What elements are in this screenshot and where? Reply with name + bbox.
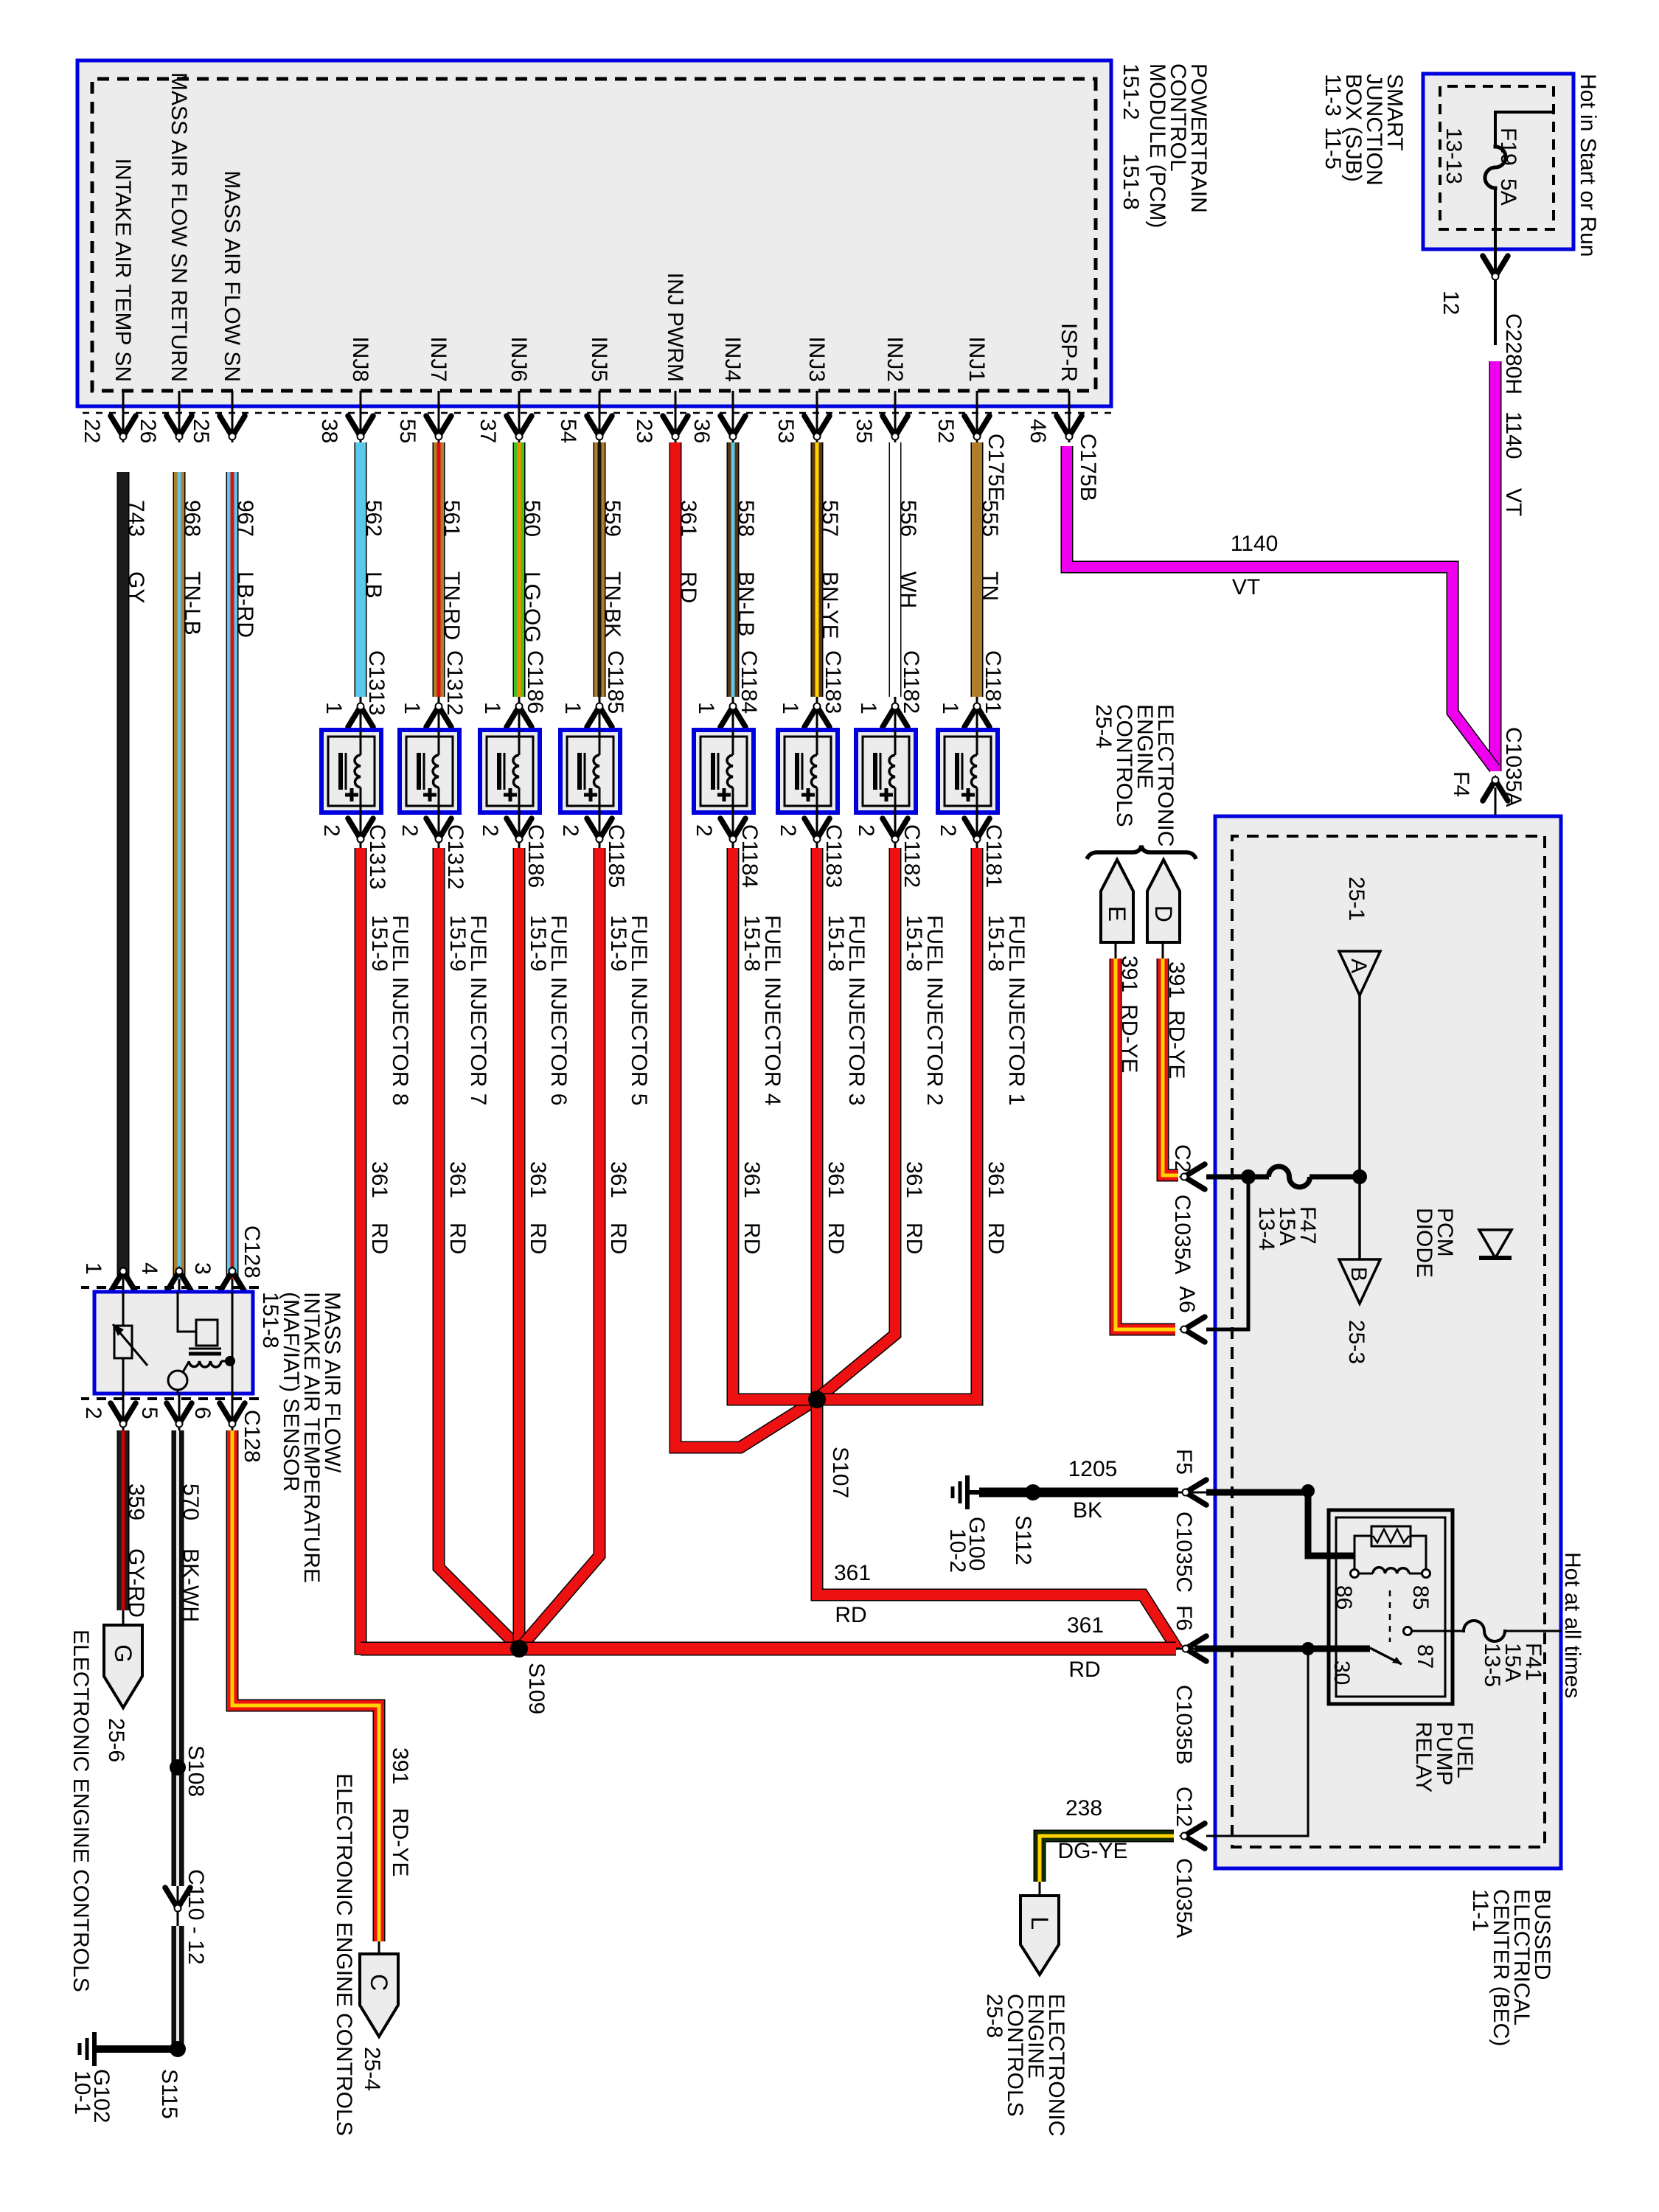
svg-text:E: E bbox=[1104, 906, 1130, 922]
svg-text:RD: RD bbox=[984, 1222, 1008, 1254]
svg-text:GY: GY bbox=[124, 571, 148, 603]
svg-text:C: C bbox=[366, 1974, 392, 1991]
wire 570 BK-WH (C110 to S115) bbox=[172, 1926, 184, 2049]
connector C1183 pin 1 chevron bbox=[778, 697, 829, 730]
fuel injector (FUEL INJECTOR 6) bbox=[480, 730, 540, 813]
svg-text:C2280H: C2280H bbox=[1501, 313, 1526, 394]
svg-text:361: 361 bbox=[902, 1161, 926, 1198]
wire 1205 BK (G100 to F5) bbox=[979, 1457, 1178, 1523]
svg-text:570: 570 bbox=[178, 1484, 203, 1520]
PCM: Powertrain Control Module box bbox=[77, 60, 1111, 413]
connector C1183 pin 2 chevron bbox=[776, 813, 846, 888]
svg-text:151-9: 151-9 bbox=[606, 915, 630, 972]
svg-text:35: 35 bbox=[852, 419, 876, 443]
svg-text:2: 2 bbox=[478, 824, 502, 837]
fuel injector (FUEL INJECTOR 7) bbox=[400, 730, 459, 813]
svg-text:INJ4: INJ4 bbox=[720, 336, 745, 382]
svg-text:RD: RD bbox=[526, 1222, 550, 1254]
svg-text:C128: C128 bbox=[240, 1410, 264, 1463]
svg-text:85: 85 bbox=[1408, 1585, 1433, 1610]
fuel injector (FUEL INJECTOR 5) bbox=[560, 730, 620, 813]
svg-text:DG-YE: DG-YE bbox=[1057, 1839, 1127, 1863]
svg-text:2: 2 bbox=[854, 824, 878, 837]
PCM pin 22 (INTAKE AIR TEMP SN) bbox=[80, 159, 136, 444]
labels C1035A / F4 bbox=[1449, 727, 1526, 807]
svg-text:C1035B: C1035B bbox=[1172, 1685, 1196, 1764]
fuse F47 15A 13-4 bbox=[1206, 1166, 1367, 1251]
SJB: Smart Junction Box bbox=[1423, 74, 1573, 249]
wire 1140 VT branch (ISP-R to junction) bbox=[1067, 446, 1495, 768]
connector C1313 pin 2 chevron bbox=[319, 813, 389, 889]
svg-text:INJ8: INJ8 bbox=[348, 336, 372, 382]
svg-text:RD-YE: RD-YE bbox=[1117, 1004, 1141, 1073]
connector L (pentagon) bbox=[1020, 1896, 1059, 1975]
svg-text:RD: RD bbox=[835, 1603, 866, 1627]
svg-text:RELAY: RELAY bbox=[1411, 1722, 1436, 1792]
MAF element (inside sensor) bbox=[168, 1292, 235, 1394]
connector C1312 pin 1 chevron bbox=[400, 697, 451, 730]
svg-text:INJ7: INJ7 bbox=[426, 336, 451, 382]
PCM pin 25 (MASS AIR FLOW SN) bbox=[189, 170, 245, 443]
svg-text:ELECTRONIC ENGINE CONTROLS: ELECTRONIC ENGINE CONTROLS bbox=[69, 1630, 93, 1992]
svg-text:RD: RD bbox=[902, 1222, 926, 1254]
label Hot at all times bbox=[1560, 1552, 1585, 1698]
svg-text:11-1: 11-1 bbox=[1468, 1889, 1492, 1932]
svg-text:25: 25 bbox=[189, 419, 213, 443]
svg-text:2: 2 bbox=[558, 824, 582, 837]
label BUSSED ELECTRICAL CENTER (BEC) 11-1 bbox=[1468, 1889, 1554, 2046]
wire 560 LG-OG (PCM pin 37 to C1186) bbox=[519, 442, 547, 714]
svg-text:25-8: 25-8 bbox=[982, 1994, 1006, 2038]
svg-text:968: 968 bbox=[180, 500, 204, 537]
wire 361 RD (INJ PWRM, PCM pin 23 to S107) bbox=[675, 442, 812, 1447]
connector G (pentagon) bbox=[104, 1625, 142, 1762]
svg-text:1: 1 bbox=[321, 702, 346, 714]
wire 391 RD-YE (sensor pin6 to connector C) bbox=[232, 1430, 412, 1954]
relay switch 30/87 bbox=[1329, 1590, 1437, 1685]
svg-text:WH: WH bbox=[896, 571, 920, 608]
svg-text:BN-YE: BN-YE bbox=[818, 571, 842, 639]
svg-text:INJ2: INJ2 bbox=[883, 336, 907, 382]
ground G100 bbox=[945, 1475, 989, 1573]
wire 570 BK-WH (sensor pin5 to G102) bbox=[178, 1430, 203, 1886]
svg-text:22: 22 bbox=[80, 419, 104, 443]
svg-text:2: 2 bbox=[397, 824, 422, 837]
svg-text:F5: F5 bbox=[1172, 1449, 1196, 1475]
connector C2 chevron bbox=[1170, 1144, 1205, 1274]
fuel injector (FUEL INJECTOR 8) bbox=[321, 730, 381, 813]
svg-text:RD: RD bbox=[1068, 1658, 1100, 1682]
svg-text:5A: 5A bbox=[1496, 178, 1520, 206]
wire 968 TN-LB (PCM pin 26 to MAF/IAT sensor) bbox=[179, 472, 204, 1292]
svg-text:C1035A: C1035A bbox=[1170, 1194, 1194, 1274]
label SMART JUNCTION BOX (SJB) 11-3 11-5 bbox=[1321, 74, 1407, 186]
wire 555 TN (PCM pin 52 to C1181) bbox=[977, 442, 1005, 714]
svg-text:151-8: 151-8 bbox=[902, 915, 926, 972]
svg-text:11-3: 11-3 bbox=[1321, 74, 1345, 116]
svg-text:C1186: C1186 bbox=[524, 824, 548, 888]
node C2 branch dot bbox=[1241, 1169, 1256, 1184]
PCM pin 46 (ISP-R) bbox=[1026, 323, 1082, 443]
svg-text:46: 46 bbox=[1026, 419, 1050, 443]
connector C (pentagon) bbox=[360, 1954, 398, 2091]
svg-text:INTAKE AIR TEMP SN: INTAKE AIR TEMP SN bbox=[111, 159, 135, 382]
svg-text:25-1: 25-1 bbox=[1344, 877, 1368, 921]
svg-text:361: 361 bbox=[676, 500, 700, 537]
svg-text:LG-OG: LG-OG bbox=[520, 571, 544, 643]
svg-text:37: 37 bbox=[476, 419, 500, 443]
ground G102 bbox=[70, 2032, 178, 2123]
PCM pin 36 (INJ4) bbox=[689, 336, 745, 443]
svg-text:S109: S109 bbox=[524, 1663, 549, 1714]
splice S107 bbox=[808, 1391, 852, 1498]
connector A6 chevron bbox=[1175, 1286, 1205, 1342]
svg-text:1: 1 bbox=[400, 702, 424, 714]
svg-text:1: 1 bbox=[778, 702, 802, 714]
svg-text:MODULE (PCM): MODULE (PCM) bbox=[1145, 63, 1169, 228]
svg-text:391: 391 bbox=[1164, 961, 1189, 998]
svg-text:1: 1 bbox=[938, 702, 962, 714]
svg-text:13-13: 13-13 bbox=[1441, 128, 1466, 184]
svg-text:C1035C: C1035C bbox=[1172, 1512, 1196, 1593]
svg-text:RD: RD bbox=[824, 1222, 848, 1254]
labels 1140 VT (branch, rotated) bbox=[1231, 532, 1279, 599]
connector C110-12 chevron bbox=[165, 1869, 208, 1965]
labels C175E / C175B bbox=[984, 434, 1100, 501]
label FUEL INJECTOR 3 151-8 bbox=[824, 915, 869, 1105]
wire 361 RD (S107 to F6 merge) bbox=[817, 1399, 1178, 1649]
wire 743 GY (PCM pin 22 to MAF/IAT sensor) bbox=[123, 472, 148, 1292]
wire F6 to relay 30 bbox=[1194, 1642, 1370, 1655]
connector F4 C1035A chevron bbox=[1483, 777, 1508, 801]
svg-text:INJ PWRM: INJ PWRM bbox=[663, 273, 687, 382]
svg-text:G: G bbox=[110, 1644, 136, 1663]
svg-text:Hot in Start or Run: Hot in Start or Run bbox=[1576, 74, 1600, 257]
wire C12 branch bbox=[1206, 1649, 1308, 1836]
label PCM DIODE bbox=[1412, 1208, 1457, 1278]
label FUEL INJECTOR 2 151-8 bbox=[902, 915, 947, 1105]
labels 1140 VT bbox=[1501, 411, 1526, 516]
svg-text:151-9: 151-9 bbox=[367, 915, 392, 972]
svg-text:25-4: 25-4 bbox=[360, 2047, 384, 2091]
svg-text:B: B bbox=[1346, 1267, 1371, 1281]
connector C1181 pin 2 chevron bbox=[936, 813, 1006, 888]
svg-text:RD: RD bbox=[367, 1222, 392, 1254]
svg-text:D: D bbox=[1150, 905, 1177, 922]
svg-text:RD-YE: RD-YE bbox=[388, 1808, 412, 1877]
svg-text:C1183: C1183 bbox=[821, 650, 845, 714]
svg-text:556: 556 bbox=[896, 500, 920, 537]
wire F5 to relay coil 86 bbox=[1206, 1484, 1354, 1556]
svg-text:VT: VT bbox=[1232, 575, 1260, 599]
fuel injector (FUEL INJECTOR 4) bbox=[694, 730, 754, 813]
wire branch to A6 bbox=[1206, 1177, 1248, 1329]
fuel injector (FUEL INJECTOR 1) bbox=[938, 730, 998, 813]
wire 361 RD (injector 6 to S109) bbox=[519, 848, 550, 1649]
svg-text:1: 1 bbox=[560, 702, 585, 714]
PCM pin 26 (MASS AIR FLOW SN RETURN) bbox=[136, 72, 192, 443]
svg-text:23: 23 bbox=[632, 419, 656, 443]
svg-text:ISP-R: ISP-R bbox=[1057, 323, 1081, 382]
PCM pin 37 (INJ6) bbox=[476, 336, 532, 443]
wire 967 LB-RD (PCM pin 25 to MAF/IAT sensor) bbox=[232, 472, 257, 1292]
wire 359 GY-RD (sensor pin2 to connector G) bbox=[123, 1430, 148, 1625]
svg-text:54: 54 bbox=[556, 419, 580, 443]
wire relay 87 to F41 bbox=[1411, 1630, 1465, 1632]
svg-text:Hot at all times: Hot at all times bbox=[1560, 1552, 1585, 1698]
connector C1182 pin 2 chevron bbox=[854, 813, 924, 888]
svg-text:86: 86 bbox=[1332, 1585, 1356, 1610]
PCM diode symbol bbox=[1479, 1230, 1512, 1258]
svg-text:361: 361 bbox=[1067, 1613, 1104, 1638]
PCM pin 53 (INJ3) bbox=[773, 336, 829, 443]
svg-text:11-5: 11-5 bbox=[1321, 127, 1345, 170]
svg-text:555: 555 bbox=[978, 500, 1002, 537]
svg-text:52: 52 bbox=[933, 419, 958, 443]
svg-text:25-4: 25-4 bbox=[1091, 704, 1116, 748]
svg-text:151-8: 151-8 bbox=[258, 1292, 282, 1349]
svg-text:361: 361 bbox=[984, 1161, 1008, 1198]
fuel injector (FUEL INJECTOR 3) bbox=[778, 730, 838, 813]
svg-text:2: 2 bbox=[319, 824, 344, 837]
svg-text:1140: 1140 bbox=[1231, 532, 1279, 556]
svg-text:TN-LB: TN-LB bbox=[180, 571, 204, 636]
svg-text:10-1: 10-1 bbox=[70, 2070, 94, 2115]
PCM pin 52 (INJ1) bbox=[933, 336, 990, 443]
svg-text:151-8: 151-8 bbox=[984, 915, 1008, 972]
wire 361 RD (injector 2 to S107) bbox=[816, 848, 926, 1399]
svg-text:INJ3: INJ3 bbox=[804, 336, 829, 382]
connector C128 chevrons (output side) bbox=[81, 1394, 264, 1463]
svg-text:2: 2 bbox=[81, 1407, 105, 1419]
wire 361 RD (injector 4 to S107) bbox=[733, 848, 817, 1399]
svg-text:2: 2 bbox=[936, 824, 960, 837]
svg-text:743: 743 bbox=[124, 500, 148, 537]
svg-text:53: 53 bbox=[773, 419, 798, 443]
connector C1182 pin 1 chevron bbox=[856, 697, 908, 730]
wire 559 TN-BK (PCM pin 54 to C1185) bbox=[599, 442, 627, 714]
svg-text:391: 391 bbox=[388, 1747, 412, 1784]
svg-text:C1185: C1185 bbox=[603, 650, 627, 714]
svg-text:25-6: 25-6 bbox=[104, 1718, 128, 1762]
label FUEL INJECTOR 7 151-9 bbox=[445, 915, 490, 1105]
label FUEL INJECTOR 4 151-8 bbox=[740, 915, 785, 1105]
connector C1184 pin 2 chevron bbox=[692, 813, 762, 888]
brace over connectors D and E bbox=[1087, 846, 1196, 859]
label ELECTRONIC ENGINE CONTROLS 25-4 (D/E) bbox=[1091, 704, 1178, 846]
connector C1313 pin 1 chevron bbox=[321, 697, 373, 730]
wire 361 RD bus (S109 to F6) bbox=[361, 1613, 1176, 1682]
svg-text:1140: 1140 bbox=[1501, 411, 1526, 459]
label FUEL INJECTOR 5 151-9 bbox=[606, 915, 651, 1105]
connector C1186 pin 1 chevron bbox=[480, 697, 532, 730]
wire 391 RD-YE (E to A6) bbox=[1116, 942, 1175, 1329]
wire 1140 VT (SJB to BEC F4) bbox=[1489, 361, 1502, 771]
IAT thermistor (inside sensor) bbox=[113, 1292, 147, 1394]
label POWERTRAIN CONTROL MODULE (PCM) 151-2 151-8 bbox=[1119, 63, 1211, 228]
labels C2280H / 12 bbox=[1439, 291, 1526, 394]
splice S115 bbox=[157, 2041, 186, 2119]
svg-text:A: A bbox=[1346, 959, 1371, 973]
svg-text:36: 36 bbox=[689, 419, 714, 443]
svg-text:1: 1 bbox=[694, 702, 718, 714]
svg-text:TN-RD: TN-RD bbox=[439, 571, 464, 640]
svg-text:DIODE: DIODE bbox=[1412, 1208, 1436, 1278]
svg-text:RD: RD bbox=[676, 571, 700, 603]
svg-text:F6: F6 bbox=[1172, 1605, 1196, 1631]
label ELECTRONIC ENGINE CONTROLS (C) bbox=[332, 1773, 356, 2136]
label F19 5A / 13-13 bbox=[1441, 128, 1520, 206]
wire A to B with F47 tap bbox=[1358, 995, 1361, 1259]
svg-text:C1181: C1181 bbox=[981, 824, 1006, 888]
svg-text:391: 391 bbox=[1117, 956, 1141, 992]
svg-text:C1182: C1182 bbox=[900, 824, 924, 888]
svg-text:87: 87 bbox=[1413, 1644, 1437, 1669]
wire 558 BN-LB (PCM pin 36 to C1184) bbox=[733, 442, 761, 714]
svg-text:55: 55 bbox=[395, 419, 420, 443]
label ELECTRONIC ENGINE CONTROLS 25-8 (L) bbox=[982, 1994, 1068, 2136]
svg-text:C1184: C1184 bbox=[737, 650, 761, 714]
connector D (pentagon) bbox=[1147, 860, 1180, 942]
svg-text:C110 - 12: C110 - 12 bbox=[184, 1869, 208, 1965]
svg-text:RD: RD bbox=[740, 1222, 764, 1254]
svg-text:BK-WH: BK-WH bbox=[178, 1548, 203, 1622]
svg-text:13-4: 13-4 bbox=[1254, 1206, 1279, 1251]
svg-text:C2: C2 bbox=[1170, 1144, 1194, 1172]
splice S112 bbox=[1011, 1484, 1041, 1565]
svg-text:967: 967 bbox=[233, 500, 257, 537]
connector C2280H chevron bbox=[1483, 256, 1508, 280]
svg-text:2: 2 bbox=[692, 824, 716, 837]
fuse F41 15A 13-5 bbox=[1464, 1621, 1561, 1687]
relay coil bbox=[1332, 1568, 1433, 1610]
svg-text:151-9: 151-9 bbox=[445, 915, 470, 972]
connector C1312 pin 2 chevron bbox=[397, 813, 467, 889]
svg-text:C1313: C1313 bbox=[365, 824, 389, 889]
splice S109 bbox=[510, 1640, 549, 1714]
connector C1186 pin 2 chevron bbox=[478, 813, 548, 888]
svg-text:361: 361 bbox=[824, 1161, 848, 1198]
svg-text:INJ1: INJ1 bbox=[964, 336, 989, 382]
svg-text:C175B: C175B bbox=[1076, 434, 1100, 501]
MAF/IAT sensor box bbox=[94, 1292, 253, 1394]
label FUEL INJECTOR 6 151-9 bbox=[526, 915, 571, 1105]
svg-text:BK: BK bbox=[1073, 1498, 1102, 1523]
svg-text:361: 361 bbox=[834, 1561, 871, 1585]
svg-text:557: 557 bbox=[818, 500, 842, 537]
connector C1181 pin 1 chevron bbox=[938, 697, 990, 730]
svg-text:561: 561 bbox=[439, 500, 464, 537]
svg-text:1: 1 bbox=[480, 702, 504, 714]
svg-text:151-8: 151-8 bbox=[824, 915, 848, 972]
svg-text:13-5: 13-5 bbox=[1480, 1643, 1504, 1687]
svg-text:5: 5 bbox=[137, 1407, 161, 1419]
svg-text:238: 238 bbox=[1065, 1796, 1102, 1820]
svg-text:MASS AIR FLOW SN: MASS AIR FLOW SN bbox=[220, 170, 244, 382]
svg-text:C1186: C1186 bbox=[523, 650, 547, 714]
svg-text:ELECTRONIC ENGINE CONTROLS: ELECTRONIC ENGINE CONTROLS bbox=[332, 1773, 356, 2136]
svg-text:BN-LB: BN-LB bbox=[734, 571, 758, 636]
label Hot in Start or Run bbox=[1576, 74, 1600, 257]
svg-text:F19: F19 bbox=[1496, 128, 1520, 166]
svg-text:INJ5: INJ5 bbox=[587, 336, 611, 382]
svg-text:562: 562 bbox=[361, 500, 386, 537]
svg-text:25-3: 25-3 bbox=[1344, 1320, 1368, 1364]
wire 557 BN-YE (PCM pin 53 to C1183) bbox=[817, 442, 845, 714]
svg-text:TN: TN bbox=[978, 571, 1002, 601]
svg-text:A6: A6 bbox=[1175, 1286, 1199, 1313]
svg-text:30: 30 bbox=[1329, 1660, 1354, 1685]
svg-text:359: 359 bbox=[124, 1484, 148, 1520]
label FUEL INJECTOR 1 151-8 bbox=[984, 915, 1029, 1105]
splice S108 bbox=[170, 1745, 208, 1797]
svg-text:S112: S112 bbox=[1011, 1515, 1035, 1565]
svg-text:C1185: C1185 bbox=[604, 824, 628, 888]
connector F5 C1035C chevron bbox=[1172, 1449, 1215, 1593]
svg-text:LB: LB bbox=[361, 571, 386, 599]
svg-text:S107: S107 bbox=[828, 1447, 852, 1498]
connector E (pentagon) bbox=[1101, 860, 1133, 942]
fuse F19 5A feed wire bbox=[1485, 112, 1554, 345]
svg-text:S115: S115 bbox=[157, 2069, 181, 2119]
svg-text:C1035A: C1035A bbox=[1172, 1858, 1196, 1938]
svg-text:C1035A: C1035A bbox=[1501, 727, 1526, 807]
BEC: Bussed Electrical Center box bbox=[1215, 816, 1561, 1868]
svg-text:151-8: 151-8 bbox=[740, 915, 764, 972]
connector C1184 pin 1 chevron bbox=[694, 697, 745, 730]
PCM pin 38 (INJ8) bbox=[317, 336, 373, 443]
svg-text:560: 560 bbox=[520, 500, 544, 537]
label MASS AIR FLOW/ INTAKE AIR TEMPERATURE (MAF/IAT) SENSOR 151-8 bbox=[258, 1292, 344, 1583]
connector C128 chevrons (sensor side) bbox=[81, 1225, 264, 1292]
wire 361 RD (injector 7 to S109) bbox=[439, 848, 515, 1644]
wire 562 LB (PCM pin 38 to C1313) bbox=[361, 442, 389, 715]
svg-text:3: 3 bbox=[190, 1262, 215, 1275]
svg-text:C1183: C1183 bbox=[821, 824, 846, 888]
svg-text:1205: 1205 bbox=[1068, 1457, 1118, 1481]
fuel pump relay box bbox=[1329, 1510, 1453, 1704]
svg-text:151-2: 151-2 bbox=[1119, 63, 1143, 120]
svg-text:361: 361 bbox=[367, 1161, 392, 1198]
label ELECTRONIC ENGINE CONTROLS (G) bbox=[69, 1630, 93, 1992]
svg-text:C175E: C175E bbox=[984, 434, 1008, 501]
svg-text:GY-RD: GY-RD bbox=[124, 1548, 148, 1618]
wire 561 TN-RD (PCM pin 55 to C1312) bbox=[439, 442, 467, 715]
svg-text:TN-BK: TN-BK bbox=[600, 571, 625, 638]
svg-text:2: 2 bbox=[776, 824, 800, 837]
wire 361 RD (injector 1 to S107) bbox=[817, 848, 1008, 1399]
wire 361 RD (injector 5 to S109) bbox=[521, 848, 630, 1646]
fuel injector (FUEL INJECTOR 2) bbox=[856, 730, 916, 813]
svg-text:558: 558 bbox=[734, 500, 758, 537]
PCM pin 23 (INJ PWRM) bbox=[632, 273, 688, 444]
svg-text:26: 26 bbox=[136, 419, 160, 443]
svg-text:559: 559 bbox=[600, 500, 625, 537]
svg-text:12: 12 bbox=[1439, 291, 1463, 315]
svg-text:6: 6 bbox=[190, 1407, 215, 1419]
label FUEL INJECTOR 8 151-9 bbox=[367, 915, 412, 1105]
svg-text:C1182: C1182 bbox=[899, 650, 923, 714]
connector F6 C1035B chevron bbox=[1172, 1605, 1215, 1764]
svg-text:10-2: 10-2 bbox=[945, 1528, 970, 1573]
svg-text:C1312: C1312 bbox=[443, 824, 467, 889]
svg-text:361: 361 bbox=[740, 1161, 764, 1198]
connector C1185 pin 2 chevron bbox=[558, 813, 628, 888]
connector C12 C1035A chevron bbox=[1172, 1787, 1205, 1938]
svg-text:361: 361 bbox=[526, 1161, 550, 1198]
svg-text:S108: S108 bbox=[184, 1745, 208, 1797]
label FUEL PUMP RELAY bbox=[1411, 1722, 1477, 1792]
